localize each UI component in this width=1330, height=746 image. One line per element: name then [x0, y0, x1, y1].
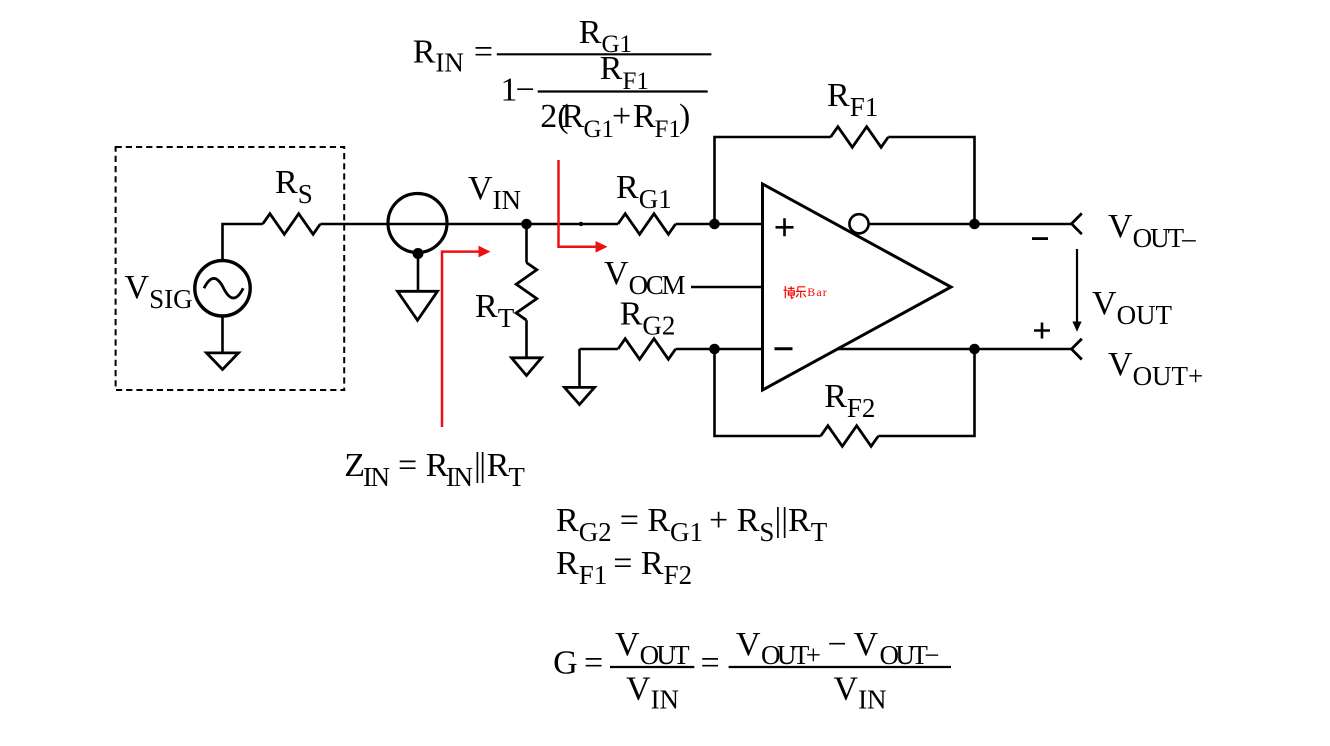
svg-text:−: −: [516, 72, 535, 109]
svg-text:G: G: [553, 645, 578, 682]
svg-text:=: =: [701, 645, 720, 682]
svg-text:=: =: [584, 645, 603, 682]
svg-text:Bar: Bar: [807, 285, 827, 299]
